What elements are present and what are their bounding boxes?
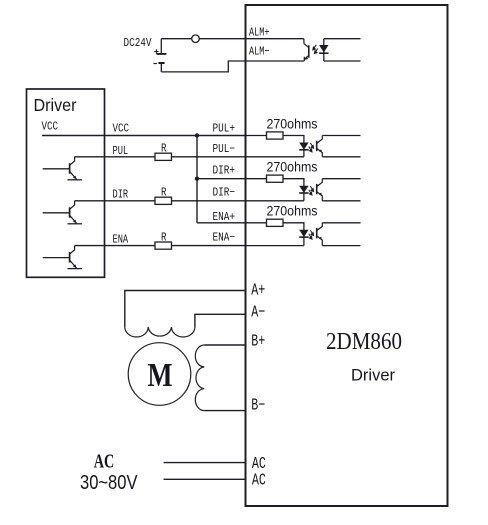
wire battery minus stub <box>160 64 162 72</box>
node VCC junction <box>195 133 199 137</box>
svg-text:M: M <box>148 357 173 394</box>
resistor R1 <box>155 153 172 160</box>
opto U3 emitter <box>317 192 323 201</box>
svg-text:A−: A− <box>251 303 265 322</box>
opto U5 light arrow 2 <box>314 48 317 53</box>
wire B+ <box>204 344 245 346</box>
transistor Q3 base bar <box>69 252 71 262</box>
opto U4 emitter arrow <box>319 237 322 240</box>
LED D4 triangle <box>319 45 328 53</box>
wire R6 to LED D3 <box>283 223 304 246</box>
transistor Q2 base wire <box>43 212 70 214</box>
transistor Q2 base bar <box>69 207 71 217</box>
opto U2 light arrow 2 <box>309 147 312 152</box>
transistor Q1 emitter <box>70 171 77 179</box>
wire ENA- rail to LED D3 <box>246 245 304 247</box>
wire DIR+ <box>197 178 246 180</box>
svg-text:A+: A+ <box>251 281 265 300</box>
svg-text:DIR−: DIR− <box>213 185 236 199</box>
svg-text:R: R <box>161 142 167 156</box>
svg-text:ENA: ENA <box>113 233 129 247</box>
wire DIR opto collector rail <box>322 178 360 180</box>
opto-transistor U5 base bar <box>308 45 310 57</box>
controller box (Driver) <box>27 89 105 277</box>
svg-text:VCC: VCC <box>42 120 59 134</box>
wire DIR- rail to LED D2 <box>246 200 304 202</box>
transistor Q1 base bar <box>69 163 71 173</box>
wire block edge to R4 <box>246 135 267 137</box>
wire AC line 2 <box>164 478 246 480</box>
LED D1 triangle <box>299 143 308 150</box>
svg-text:Driver: Driver <box>34 95 77 115</box>
wire block edge to R5 <box>246 178 267 180</box>
opto-transistor U5 emitter arrow <box>305 56 308 59</box>
opto U4 emitter <box>317 236 323 246</box>
transistor Q1 emitter arrow <box>73 176 76 179</box>
wire DIR to DIR- <box>75 200 155 202</box>
svg-text:VCC: VCC <box>113 122 130 136</box>
LED D2 triangle <box>299 186 308 193</box>
opto-transistor U5 collector <box>304 44 309 48</box>
transistor Q1 emitter bar <box>68 179 83 181</box>
wire ENA+ <box>197 222 246 224</box>
opto U5 light arrow 1 <box>313 45 316 50</box>
wire A- <box>195 314 246 327</box>
opto U4 phototransistor base bar <box>316 228 318 238</box>
opto U2 phototransistor base bar <box>316 141 318 151</box>
transistor Q3 base wire <box>43 257 70 259</box>
opto U3 light arrow 2 <box>309 190 312 195</box>
resistor R6 <box>267 219 284 226</box>
transistor Q1 base wire <box>43 168 70 170</box>
motor phase B coil L2 <box>195 345 204 411</box>
wire ENA opto collector rail <box>322 222 360 224</box>
opto U4 light arrow 2 <box>309 234 312 239</box>
svg-text:PUL: PUL <box>113 144 129 158</box>
svg-text:B+: B+ <box>251 332 265 351</box>
LED D1 cathode bar <box>299 149 308 151</box>
wire PUL- rail to LED D1 <box>246 156 304 158</box>
wire PUL opto collector rail <box>322 135 360 137</box>
wire B- <box>204 410 245 412</box>
resistor R2 <box>155 197 172 204</box>
motor phase A coil L1 <box>125 327 195 337</box>
transistor Q3 collector <box>70 246 75 255</box>
svg-text:ENA+: ENA+ <box>213 210 236 224</box>
opto U2 collector <box>317 136 323 144</box>
svg-text:ALM−: ALM− <box>249 45 270 59</box>
wire ALM internal top <box>324 38 361 40</box>
svg-text:2DM860: 2DM860 <box>326 328 402 355</box>
LED D3 triangle <box>299 230 308 237</box>
battery BT1 minus sign <box>154 63 157 65</box>
wire VCC branch vertical <box>196 136 198 223</box>
svg-text:270ohms: 270ohms <box>267 116 318 131</box>
transistor Q3 emitter arrow <box>73 264 76 267</box>
alarm indicator lamp <box>192 35 200 43</box>
battery BT1 plates <box>157 54 167 63</box>
wire PUL to PUL- <box>75 156 155 158</box>
driver block U1 2DM860 outline <box>246 5 448 506</box>
opto U2 emitter <box>317 148 323 156</box>
svg-text:PUL+: PUL+ <box>213 122 236 136</box>
transistor Q3 emitter bar <box>68 268 83 270</box>
svg-text:PUL−: PUL− <box>213 142 236 156</box>
wire block edge to R6 <box>246 222 267 224</box>
wire ENA to ENA- <box>75 245 155 247</box>
svg-text:R: R <box>161 230 167 244</box>
svg-text:30~80V: 30~80V <box>80 472 138 494</box>
opto U4 collector <box>317 223 323 231</box>
transistor Q3 emitter <box>70 260 77 268</box>
node DIR+ junction <box>195 177 199 181</box>
wire ALM+ top rail <box>161 38 304 40</box>
transistor Q1 collector <box>70 157 75 166</box>
opto U2 emitter arrow <box>319 149 322 152</box>
LED D2 cathode bar <box>299 192 308 194</box>
svg-text:270ohms: 270ohms <box>267 204 318 219</box>
svg-text:ALM+: ALM+ <box>249 26 270 40</box>
LED D3 cathode bar <box>299 236 308 238</box>
svg-text:AC: AC <box>252 471 266 490</box>
svg-text:R: R <box>161 186 167 200</box>
opto U2 light arrow 1 <box>310 143 313 148</box>
svg-text:AC: AC <box>94 451 115 473</box>
wire PUL opto emitter rail <box>322 156 360 158</box>
opto-transistor U5 emitter <box>304 55 309 59</box>
transistor Q2 collector <box>70 201 75 210</box>
wire R4 to LED D1 <box>283 136 304 157</box>
svg-text:270ohms: 270ohms <box>267 160 318 175</box>
wire AC line 1 <box>164 462 246 464</box>
wire battery minus bottom rail <box>161 61 304 72</box>
wire ALM internal bottom <box>324 60 361 62</box>
LED D4 cathode bar <box>319 52 328 54</box>
transistor Q2 emitter <box>70 215 77 223</box>
opto-transistor U5 output stubs <box>303 39 305 61</box>
wire battery plus stub <box>160 39 162 53</box>
wire R3 to block <box>172 245 246 247</box>
svg-text:Driver: Driver <box>351 366 395 385</box>
resistor R4 <box>267 132 284 139</box>
opto U3 light arrow 1 <box>310 186 313 191</box>
wire R2 to block <box>172 200 246 202</box>
transistor Q2 emitter bar <box>68 223 83 225</box>
svg-text:DIR: DIR <box>113 188 129 202</box>
opto U3 phototransistor base bar <box>316 184 318 194</box>
resistor R5 <box>267 175 284 182</box>
wire DIR opto emitter rail <box>322 200 360 202</box>
svg-text:DIR+: DIR+ <box>213 164 236 178</box>
svg-text:ENA−: ENA− <box>213 231 236 245</box>
svg-text:B−: B− <box>251 396 265 415</box>
battery BT1 plus sign <box>154 49 158 53</box>
wire ENA opto emitter rail <box>322 245 360 247</box>
resistor R3 <box>155 242 172 249</box>
svg-text:DC24V: DC24V <box>124 36 153 50</box>
wire A+ <box>125 291 246 328</box>
wire VCC to PUL+ <box>42 135 246 137</box>
opto U3 emitter arrow <box>319 192 322 195</box>
opto U4 light arrow 1 <box>310 230 313 235</box>
motor M1 circle <box>128 343 191 406</box>
transistor Q2 emitter arrow <box>73 220 76 223</box>
wire R5 to LED D2 <box>283 179 304 201</box>
opto U3 collector <box>317 179 323 187</box>
wire R1 to block <box>172 156 246 158</box>
LED D4 vertical link <box>323 39 325 61</box>
